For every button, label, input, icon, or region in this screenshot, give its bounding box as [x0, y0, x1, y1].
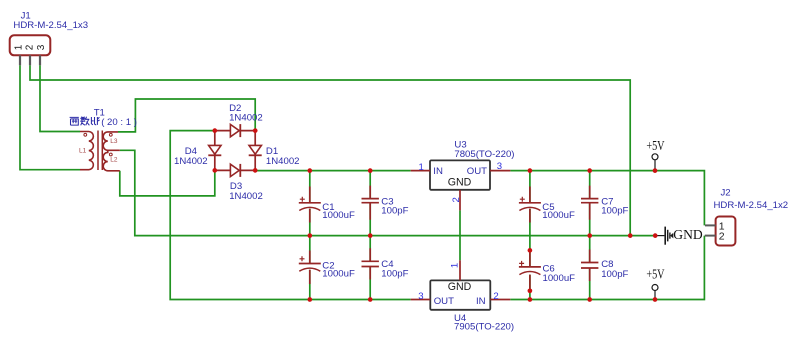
junction bridge TR node — [253, 128, 258, 133]
connector J2 — [716, 217, 736, 246]
svg-text:100pF: 100pF — [381, 206, 408, 217]
net flag +5V bottom — [652, 285, 658, 291]
svg-text:OUT: OUT — [434, 296, 454, 307]
T1 L2 polarity dot — [109, 153, 112, 156]
U3 pin 3 stub — [490, 170, 510, 172]
svg-text:2: 2 — [493, 291, 498, 302]
svg-text:2: 2 — [719, 230, 725, 242]
U4 pin 3 stub — [411, 299, 431, 301]
transformer T1 primary L1 — [80, 132, 93, 170]
T1 L1 polarity dot — [84, 133, 87, 136]
junction C6 bottom on rail — [528, 297, 533, 302]
svg-text:IN: IN — [476, 296, 486, 307]
svg-text:1: 1 — [419, 162, 424, 173]
svg-text:1N4002: 1N4002 — [229, 191, 263, 202]
transformer T1 secondary L3 — [103, 132, 120, 150]
U4 pin 2 stub — [490, 299, 510, 301]
U3 pin 1 stub — [411, 170, 430, 172]
svg-text:( 20 : 1 ): ( 20 : 1 ) — [101, 117, 137, 128]
U4 pin 1 stub — [459, 260, 461, 280]
J2 pin stubs — [705, 224, 716, 226]
bridge wire square — [215, 131, 255, 171]
capacitor C8 — [581, 250, 598, 282]
svg-text:L1: L1 — [79, 147, 87, 154]
diode D4 — [209, 145, 221, 154]
wire C3 C4 column — [369, 171, 371, 300]
T1 core — [97, 131, 99, 171]
junction C6 top pin — [528, 248, 533, 253]
svg-text:GND: GND — [448, 176, 472, 188]
svg-text:3: 3 — [36, 44, 47, 50]
capacitor C1 — [299, 187, 321, 223]
svg-text:2: 2 — [451, 197, 462, 202]
svg-text:1: 1 — [14, 44, 25, 50]
wire J1 pin1 to T1 primary bottom — [20, 65, 80, 169]
wire U3 GND pin to U4 pin1 — [459, 210, 461, 260]
svg-text:HDR-M-2.54_1x3: HDR-M-2.54_1x3 — [13, 20, 88, 31]
junction C1 top on +raw rail — [307, 168, 312, 173]
junction +5V flag bottom on rail — [653, 297, 658, 302]
svg-text:100pF: 100pF — [381, 268, 408, 279]
junction bridge TL node — [212, 128, 217, 133]
wire center tap to GND rail — [120, 150, 655, 235]
capacitor C5 — [519, 187, 541, 223]
svg-text:L2: L2 — [110, 157, 118, 164]
svg-text:2: 2 — [25, 44, 36, 50]
capacitor C7 — [581, 186, 598, 220]
svg-text:1N4002: 1N4002 — [174, 156, 208, 167]
wire C5 C6 column — [529, 171, 531, 300]
junction bridge BL node — [212, 168, 217, 173]
wire U3 OUT +5V rail to J2 pin1 — [510, 171, 704, 226]
wire bridge node BR to U3 IN (+ raw rail) — [255, 170, 411, 172]
net flag GND chassis symbol — [655, 235, 664, 237]
svg-text:GND: GND — [673, 227, 703, 242]
junction C6 bottom pin — [528, 288, 533, 293]
svg-text:7805(TO-220): 7805(TO-220) — [454, 149, 514, 160]
svg-text:3: 3 — [497, 161, 502, 172]
wire U4 IN bottom rail to J2 pin2 — [510, 236, 704, 300]
junction C5 top on +5V rail — [528, 168, 533, 173]
wire C1 C2 column — [309, 171, 311, 300]
connector J1 — [10, 35, 51, 55]
svg-text:1: 1 — [450, 263, 461, 268]
junction C1 C2 on GND rail — [307, 233, 312, 238]
svg-text:100pF: 100pF — [601, 206, 628, 217]
junction C3 C4 on GND rail — [368, 233, 373, 238]
svg-text:IN: IN — [433, 166, 443, 177]
U3 pin 2 stub — [459, 190, 461, 211]
J1 pin stubs — [19, 55, 21, 65]
wire C7 C8 column — [589, 171, 591, 300]
svg-text:HDR-M-2.54_1x2: HDR-M-2.54_1x2 — [714, 200, 789, 211]
diode D2 — [230, 124, 239, 136]
wire J1 pin2 to GND rail (long top horizontal) — [30, 65, 630, 235]
diode D1 — [249, 145, 261, 154]
svg-text:1N4002: 1N4002 — [229, 112, 263, 123]
svg-text:1000uF: 1000uF — [322, 269, 355, 280]
svg-text:GND: GND — [448, 281, 472, 293]
junction C4 bottom on rail — [368, 297, 373, 302]
junction +5V flag top on rail — [653, 168, 658, 173]
svg-text:+5V: +5V — [646, 266, 664, 282]
wire bridge node TL to negative rail — [170, 131, 411, 300]
wire T1 L3 top to bridge node TR — [118, 99, 255, 132]
capacitor C3 — [362, 186, 379, 220]
junction C7 C8 on GND rail — [587, 233, 592, 238]
junction C7 top on +5V rail — [587, 168, 592, 173]
svg-text:3: 3 — [418, 291, 423, 302]
T1 L3 polarity dot — [109, 133, 112, 136]
svg-text:+5V: +5V — [646, 137, 664, 153]
svg-text:7905(TO-220): 7905(TO-220) — [454, 321, 514, 332]
transformer T1 secondary L2 — [103, 150, 120, 170]
svg-text:1000uF: 1000uF — [543, 273, 576, 284]
regulator U3 7805 — [430, 160, 490, 189]
diode D3 — [230, 164, 239, 176]
capacitor C2 — [299, 251, 321, 285]
junction J1 pin2 wire on GND rail — [628, 233, 633, 238]
capacitor C4 — [362, 248, 379, 279]
junction C3 top on +raw rail — [368, 168, 373, 173]
junction bridge BR node — [253, 168, 258, 173]
regulator U4 7905 — [430, 280, 490, 309]
junction GND flag on rail — [653, 233, 658, 238]
net flag +5V top — [652, 154, 658, 160]
svg-text:L3: L3 — [110, 138, 118, 145]
junction C2 bottom on rail — [307, 297, 312, 302]
svg-text:1000uF: 1000uF — [322, 210, 355, 221]
svg-text:1N4002: 1N4002 — [266, 156, 300, 167]
svg-text:100pF: 100pF — [601, 269, 628, 280]
capacitor C6 — [519, 250, 541, 290]
svg-text:J2: J2 — [721, 187, 731, 198]
wire T1 L2 bottom to bridge node BL — [120, 170, 215, 196]
svg-text:1000uF: 1000uF — [542, 210, 575, 221]
wire J1 pin3 to T1 primary top — [40, 65, 80, 131]
junction C8 bottom on rail — [587, 297, 592, 302]
T1 turns ratio label (CJK glyphs drawn as strokes) — [70, 117, 100, 126]
